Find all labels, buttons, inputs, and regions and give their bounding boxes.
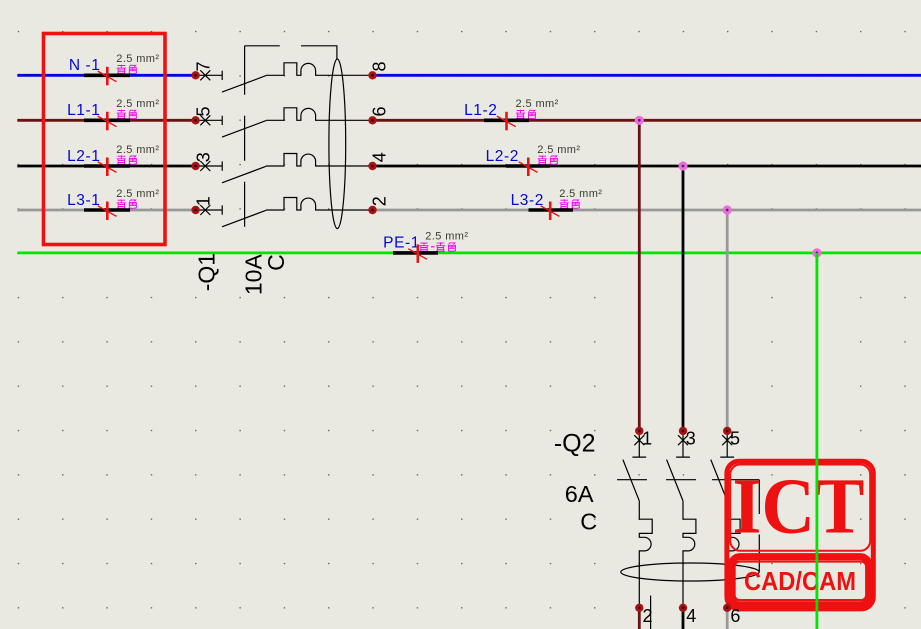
- wire L3 bus: [17, 209, 921, 212]
- circuit breaker Q2: [617, 435, 759, 629]
- Q2 right bracket: [758, 480, 760, 572]
- svg-text:2.5 mm²: 2.5 mm²: [537, 144, 580, 156]
- svg-text:4: 4: [370, 152, 390, 162]
- svg-text:C: C: [580, 509, 597, 535]
- svg-text:2.5 mm²: 2.5 mm²: [116, 188, 159, 200]
- svg-text:2: 2: [370, 196, 390, 206]
- svg-text:CAD/CAM: CAD/CAM: [744, 566, 856, 596]
- Q1 pole 1-2 contact: [199, 198, 373, 227]
- wire L1 bus: [17, 119, 921, 122]
- Q2 pole 1-2 contact: [623, 435, 652, 608]
- stray wire stub: [650, 596, 652, 629]
- wire PE drop: [816, 253, 819, 629]
- svg-text:L3-2: L3-2: [511, 192, 544, 209]
- Q1 terminal pin 2: [368, 196, 389, 214]
- Q1 pole 7-8 contact: [199, 63, 373, 92]
- Q2 pole 3-4 contact: [667, 435, 696, 608]
- Q1 terminal pin 3: [191, 152, 213, 170]
- Q1 pole 5-6 contact: [199, 108, 373, 137]
- svg-text:-Q2: -Q2: [554, 430, 596, 458]
- circuit breaker Q1: [199, 46, 373, 229]
- Q2 terminal pin 2: [635, 604, 652, 626]
- selection frame: [44, 34, 166, 245]
- wire L1 drop to Q2 pin1: [638, 120, 641, 629]
- Q2 terminal pin 5: [723, 427, 740, 449]
- svg-text:7: 7: [194, 61, 214, 71]
- Q1 terminal pin 7: [191, 61, 213, 79]
- svg-text:5: 5: [730, 429, 740, 449]
- svg-text:3: 3: [194, 152, 214, 162]
- svg-text:2.5 mm²: 2.5 mm²: [559, 188, 602, 200]
- node L3 junction: [723, 205, 732, 214]
- Q2 terminal pin 4: [679, 604, 696, 626]
- node L2 junction: [678, 161, 687, 170]
- Q1 pole 3-4 contact: [199, 154, 373, 183]
- svg-text:1: 1: [642, 429, 652, 449]
- Q2 terminal pin 1: [635, 427, 652, 449]
- svg-text:2: 2: [643, 606, 653, 626]
- Q2 terminal pin 3: [679, 427, 696, 449]
- svg-text:N -1: N -1: [69, 57, 101, 74]
- svg-text:L3-1: L3-1: [67, 192, 100, 209]
- svg-text:L1-1: L1-1: [67, 102, 100, 119]
- svg-text:6: 6: [370, 106, 390, 116]
- wire label L3-2: [511, 188, 603, 220]
- svg-text:ICT: ICT: [733, 463, 865, 550]
- Q1 linkage ellipse: [329, 59, 346, 229]
- svg-text:5: 5: [194, 106, 214, 116]
- Q1 terminal pin 1: [191, 196, 213, 214]
- wire label N-1: [69, 53, 160, 85]
- Q1 terminal pin 8: [368, 61, 389, 79]
- svg-text:L2-1: L2-1: [67, 148, 100, 165]
- node PE junction: [812, 248, 821, 257]
- svg-text:2.5 mm²: 2.5 mm²: [116, 53, 159, 65]
- svg-text:6A: 6A: [565, 481, 594, 507]
- Q1 terminal pin 6: [368, 106, 389, 124]
- svg-text:3: 3: [686, 429, 696, 449]
- wire N bus: [17, 74, 921, 77]
- wire L2 bus: [17, 165, 921, 168]
- wire label PE-1: [383, 231, 468, 263]
- Q1 trip linkage bar: [244, 46, 246, 227]
- svg-text:-Q1: -Q1: [194, 253, 220, 291]
- svg-text:L1-2: L1-2: [464, 102, 497, 119]
- svg-text:C: C: [263, 254, 289, 271]
- wire PE bus: [17, 251, 921, 254]
- wire label L1-2: [464, 98, 559, 130]
- svg-text:L2-2: L2-2: [486, 148, 519, 165]
- svg-text:6: 6: [730, 606, 740, 626]
- svg-text:1: 1: [194, 196, 214, 206]
- wire label L3-1: [67, 188, 159, 220]
- ICT CAD/CAM logo: [727, 461, 873, 609]
- svg-text:2.5 mm²: 2.5 mm²: [116, 98, 159, 110]
- wire L3 drop to Q2 pin5: [726, 210, 729, 629]
- Q1 terminal pin 5: [191, 106, 213, 124]
- Q2 terminal pin 6: [723, 604, 740, 626]
- wire label L2-1: [67, 144, 159, 176]
- svg-text:2.5 mm²: 2.5 mm²: [116, 144, 159, 156]
- wire label L2-2: [486, 144, 581, 176]
- svg-text:2.5 mm²: 2.5 mm²: [516, 98, 559, 110]
- svg-text:8: 8: [370, 61, 390, 71]
- wire label L1-1: [67, 98, 159, 130]
- Q2 linkage ellipse: [621, 563, 759, 581]
- node L1 junction: [635, 116, 644, 125]
- svg-text:2.5 mm²: 2.5 mm²: [425, 231, 468, 243]
- svg-text:4: 4: [686, 606, 696, 626]
- wire L2 drop to Q2 pin3: [682, 166, 685, 629]
- Q2 trip linkage bar: [617, 479, 759, 481]
- Q1 top bracket: [245, 46, 337, 59]
- Q2 pole 5-6 contact: [711, 435, 740, 608]
- svg-text:PE-1: PE-1: [383, 235, 420, 252]
- Q1 terminal pin 4: [368, 152, 389, 170]
